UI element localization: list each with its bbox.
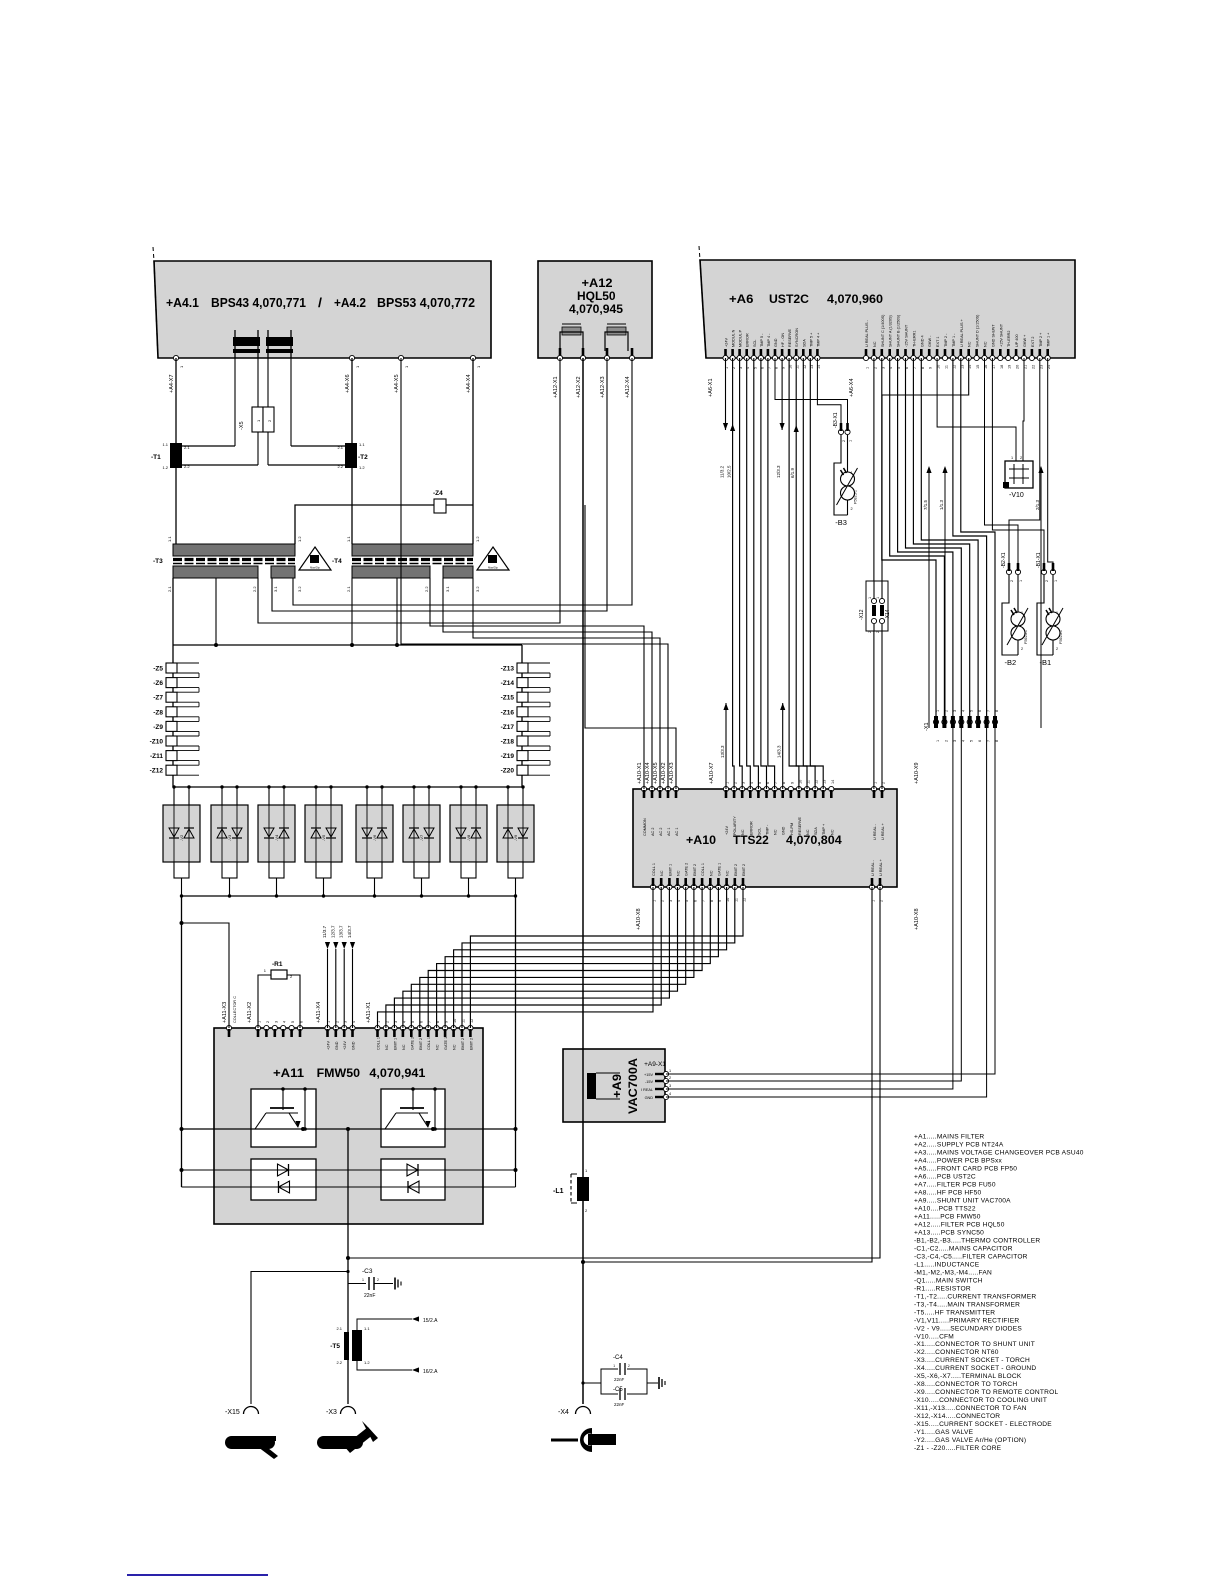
- svg-text:-V7: -V7: [419, 834, 424, 841]
- svg-text:-M1,-M2,-M3,-M4.....FAN: -M1,-M2,-M3,-M4.....FAN: [914, 1269, 992, 1276]
- wire left rail to FMW diode bus: [181, 896, 183, 1187]
- svg-text:2: 2: [377, 1278, 379, 1282]
- wire +A6-X1 pin 13 to TTS X7 pin 13: [810, 358, 823, 789]
- electrode holder icon: [225, 1436, 275, 1449]
- svg-text:F5925/1: F5925/1: [1059, 630, 1063, 644]
- svg-text:-T2: -T2: [358, 454, 368, 461]
- wire T3 tap 3.1 to HQL X3: [272, 358, 607, 611]
- wire +A6-X4 pin 21 to CFM V10 pin 2: [1023, 358, 1024, 461]
- ground after C3: [394, 1278, 396, 1290]
- svg-text:1: 1: [1056, 611, 1058, 615]
- svg-text:+24V: +24V: [725, 826, 729, 835]
- svg-text:+A6: +A6: [729, 292, 754, 306]
- signal arrow 7/1.5: [926, 466, 931, 473]
- svg-text:1: 1: [1019, 580, 1023, 582]
- svg-text:2: 2: [1056, 647, 1058, 651]
- svg-text:3: 3: [669, 1084, 671, 1088]
- svg-text:-R1: -R1: [272, 961, 283, 968]
- svg-text:NC: NC: [385, 1044, 389, 1050]
- svg-text:U REAL -: U REAL -: [871, 859, 875, 876]
- svg-text:1: 1: [851, 471, 853, 475]
- svg-text:11: 11: [945, 365, 949, 369]
- wire +A11-X4 pin 4 arrow: [352, 949, 354, 1028]
- svg-text:1: 1: [362, 1278, 364, 1282]
- svg-text:ERROR: ERROR: [749, 821, 753, 835]
- wire TTS X8R pin1 down to output rail: [583, 887, 872, 1262]
- svg-text:5: 5: [970, 740, 974, 742]
- svg-text:+15V: +15V: [644, 1073, 653, 1077]
- svg-text:-X12,-X14.....CONNECTOR: -X12,-X14.....CONNECTOR: [914, 1413, 1000, 1420]
- svg-text:2: 2: [628, 1364, 630, 1368]
- svg-text:GKW -: GKW -: [928, 335, 932, 347]
- svg-text:U REAL +: U REAL +: [879, 858, 883, 876]
- svg-text:GATE 2: GATE 2: [410, 1037, 414, 1050]
- svg-text:+A3.....MAINS VOLTAGE CHANGEOV: +A3.....MAINS VOLTAGE CHANGEOVER PCB ASU…: [914, 1149, 1084, 1156]
- mains capacitor C1: [234, 330, 236, 358]
- svg-text:NC: NC: [984, 341, 988, 347]
- svg-text:-Z9: -Z9: [153, 724, 163, 731]
- svg-text:GATE 1: GATE 1: [717, 863, 721, 876]
- svg-text:TMP 2 +: TMP 2 +: [1039, 332, 1043, 347]
- wire +A6-X4 pin 16 to B2 right: [985, 358, 1019, 568]
- svg-text:AC 1: AC 1: [675, 828, 679, 836]
- svg-text:COLL 1: COLL 1: [377, 1037, 381, 1050]
- svg-text:U REAL -: U REAL -: [873, 823, 877, 840]
- svg-text:2: 2: [1020, 456, 1022, 460]
- svg-text:SHUNT A (1/320S): SHUNT A (1/320S): [889, 314, 893, 347]
- pin +A10-X3: [673, 786, 678, 791]
- svg-text:-T5.....HF TRANSMITTER: -T5.....HF TRANSMITTER: [914, 1309, 995, 1316]
- wire +A6-X4 pin 6 to -X1 pin 4: [906, 358, 962, 718]
- svg-text:-Z16: -Z16: [501, 709, 515, 716]
- filter PCB block +A12 HQL50: [538, 261, 652, 358]
- wire +A4-X5 to TTS X2: [401, 358, 668, 789]
- freewheel diode box 2: [381, 1159, 445, 1200]
- svg-text:EMIT 2: EMIT 2: [469, 1038, 473, 1050]
- wire T4 tap 3.1 to TTS X4: [443, 578, 652, 789]
- filter core -Z7: [166, 692, 177, 702]
- svg-text:7/1.5: 7/1.5: [923, 499, 928, 510]
- svg-text:3.2: 3.2: [475, 586, 480, 592]
- svg-text:-T1: -T1: [151, 454, 161, 461]
- svg-text:-Z12: -Z12: [150, 768, 164, 775]
- wire HQL X2 rail to current socket X4: [582, 358, 584, 1404]
- wire +A11-X4 pin 2 arrow: [335, 949, 337, 1028]
- wire +A6-X1 pin 5 to TTS X7 pin 5: [754, 358, 759, 789]
- svg-text:16/2.A: 16/2.A: [423, 1369, 438, 1375]
- svg-text:4: 4: [961, 710, 965, 712]
- svg-text:SCL: SCL: [757, 828, 761, 835]
- svg-text:11/3.7: 11/3.7: [322, 925, 327, 938]
- wire +A11-X4 pin 1 arrow: [327, 949, 329, 1028]
- svg-text:I REAL: I REAL: [641, 1088, 653, 1092]
- svg-text:+A10-X1: +A10-X1: [637, 762, 643, 784]
- svg-text:TMP -: TMP -: [766, 824, 770, 835]
- svg-text:11/3.2: 11/3.2: [720, 465, 725, 478]
- svg-text:1: 1: [613, 1364, 615, 1368]
- svg-text:4: 4: [961, 740, 965, 742]
- svg-text:-X3: -X3: [326, 1409, 337, 1416]
- svg-text:4,070,941: 4,070,941: [369, 1066, 425, 1080]
- filter core -Z11: [166, 751, 177, 761]
- wire TTS X8 pin 3 to FMW X1 pin 3: [394, 887, 669, 1028]
- svg-text:SDA: SDA: [802, 339, 806, 347]
- svg-text:EMIT 1: EMIT 1: [393, 1038, 397, 1050]
- svg-text:-Z14: -Z14: [501, 680, 515, 687]
- svg-text:2: 2: [851, 507, 853, 511]
- svg-text:4: 4: [283, 1021, 287, 1023]
- filter core -Z10: [166, 736, 177, 746]
- svg-text:GND 4: GND 4: [920, 335, 924, 347]
- PCB block +A11 FMW50: [214, 1028, 483, 1224]
- svg-text:HS-PM: HS-PM: [790, 823, 794, 835]
- svg-text:-Z17: -Z17: [501, 724, 515, 731]
- svg-text:-L1: -L1: [553, 1188, 564, 1195]
- svg-text:+A8.....HF PCB HF50: +A8.....HF PCB HF50: [914, 1189, 982, 1196]
- wire T5 secondary to arrow 16/2.A: [357, 1360, 412, 1370]
- svg-text:3.1: 3.1: [445, 586, 450, 592]
- wire +A6-X1 pin 10 to TTS X7 pin 10: [789, 358, 799, 789]
- svg-text:-T3: -T3: [153, 558, 163, 565]
- filter core -Z15: [517, 692, 528, 702]
- filter core -Z9: [166, 721, 177, 731]
- connector -X14: [879, 598, 884, 603]
- svg-text:VAC700A: VAC700A: [628, 1058, 640, 1114]
- svg-text:SHUNT B (1/250S): SHUNT B (1/250S): [897, 314, 901, 347]
- svg-text:2.2: 2.2: [336, 1360, 342, 1365]
- svg-text:20: 20: [1016, 365, 1020, 369]
- svg-text:EMIT 2: EMIT 2: [742, 864, 746, 876]
- IGBT transistor V1 symbol: [282, 1089, 284, 1110]
- resistor R1: [258, 975, 271, 1028]
- control PCB block +A6 UST2C: [700, 260, 1075, 358]
- svg-text:-Y1.....GAS VALVE: -Y1.....GAS VALVE: [914, 1429, 974, 1436]
- wire +A4-X6 down to T4: [351, 358, 353, 443]
- svg-text:NC: NC: [968, 341, 972, 347]
- wire TTS X8 pin 4 to FMW X1 pin 4: [403, 887, 678, 1028]
- svg-text:-V2 - V9.....SECUNDARY DIODES: -V2 - V9.....SECUNDARY DIODES: [914, 1325, 1022, 1332]
- wire TTS X8 pin 11 to FMW X1 pin 11: [462, 887, 735, 1028]
- svg-text:2.1: 2.1: [167, 586, 172, 592]
- svg-text:8: 8: [995, 710, 999, 712]
- filter core -Z18: [517, 736, 528, 746]
- svg-text:4: 4: [669, 1092, 671, 1096]
- svg-text:COLL 1: COLL 1: [427, 1037, 431, 1050]
- shunt unit block +A9 VAC700A: [563, 1049, 665, 1122]
- ground clamp icon: [551, 1439, 578, 1442]
- wire TTS X8 pin 2 to FMW X1 pin 2: [386, 887, 661, 1028]
- svg-text:2.2: 2.2: [424, 586, 429, 592]
- svg-text:2: 2: [868, 631, 872, 633]
- svg-text:3.2: 3.2: [297, 586, 302, 592]
- svg-text:+A13.....PCB SYNC50: +A13.....PCB SYNC50: [914, 1229, 984, 1236]
- filter capacitor C3: [348, 1283, 366, 1285]
- svg-text:2: 2: [876, 631, 880, 633]
- wire +A6-X4 pin 3 to -X1 pin 1: [882, 358, 936, 718]
- svg-text:1.1: 1.1: [167, 536, 172, 542]
- svg-text:EXT 2: EXT 2: [1031, 337, 1035, 347]
- svg-text:NC: NC: [774, 829, 778, 835]
- svg-text:14/3.7: 14/3.7: [347, 925, 352, 938]
- PCB block +A10 TTS22: [633, 789, 897, 887]
- svg-text:-Z8: -Z8: [153, 709, 163, 716]
- pin +A10-X4: [649, 786, 654, 791]
- wire T4 mid tap: [396, 578, 398, 645]
- svg-text:2: 2: [1021, 647, 1023, 651]
- main transformer T3: [173, 544, 295, 556]
- svg-text:-Z20: -Z20: [501, 768, 515, 775]
- svg-text:1.2: 1.2: [359, 465, 365, 470]
- svg-text:+A4.2: +A4.2: [334, 295, 366, 310]
- svg-text:+A10-X8: +A10-X8: [636, 908, 642, 930]
- svg-text:NC: NC: [741, 829, 745, 835]
- svg-text:1.1: 1.1: [162, 442, 168, 447]
- svg-text:-X11,-X13.....CONNECTOR TO FAN: -X11,-X13.....CONNECTOR TO FAN: [914, 1405, 1027, 1412]
- wire +A6-X4 pin 4 to -X1 pin 2: [890, 358, 945, 718]
- svg-text:9: 9: [790, 782, 794, 784]
- svg-text:F5925/1: F5925/1: [1024, 630, 1028, 644]
- svg-text:GND: GND: [645, 1096, 654, 1100]
- svg-text:-V10: -V10: [1009, 492, 1024, 499]
- svg-text:RESERVE: RESERVE: [798, 816, 802, 835]
- current transformer T2: [345, 443, 357, 468]
- svg-text:+24V: +24V: [725, 338, 729, 347]
- wire -X1 pin8 to A9 +15V: [666, 728, 995, 1074]
- wire TTS X8 pin 1 to FMW X1 pin 1: [378, 887, 654, 1028]
- svg-text:22: 22: [1031, 365, 1035, 369]
- secondary rectifier frame: [172, 578, 174, 787]
- svg-text:-X2.....CONNECTOR NT60: -X2.....CONNECTOR NT60: [914, 1349, 999, 1356]
- svg-text:3.1: 3.1: [273, 586, 278, 592]
- svg-text:UST2C: UST2C: [769, 292, 809, 306]
- wire TTS X8 pin 9 to FMW X1 pin 9: [445, 887, 718, 1028]
- svg-text:EMIT 2: EMIT 2: [693, 864, 697, 876]
- svg-text:GKW +: GKW +: [1023, 334, 1027, 347]
- svg-text:-C4: -C4: [613, 1355, 623, 1361]
- svg-text:NC: NC: [873, 341, 877, 347]
- svg-text:-X1: -X1: [924, 722, 930, 731]
- wire Z4 link T3 to T4: [295, 505, 473, 544]
- svg-text:2: 2: [842, 440, 846, 442]
- svg-text:+A7.....FILTER PCB FU50: +A7.....FILTER PCB FU50: [914, 1181, 996, 1188]
- svg-text:1.1: 1.1: [346, 536, 351, 542]
- svg-text:+A6-X4: +A6-X4: [849, 379, 855, 398]
- svg-text:2: 2: [266, 1021, 270, 1023]
- svg-text:1.1: 1.1: [359, 442, 365, 447]
- filter core in HQL50 (right): [607, 323, 626, 325]
- svg-text:+A10-X3: +A10-X3: [669, 762, 675, 784]
- svg-text:19: 19: [1008, 365, 1012, 369]
- filter core -Z19: [517, 751, 528, 761]
- svg-text:+A12-X4: +A12-X4: [625, 376, 631, 398]
- secondary diode module V5: [305, 805, 342, 862]
- wire +A6-X4 pin 10 to CFM V10 pin 1: [937, 358, 1016, 461]
- svg-text:-V3: -V3: [227, 834, 232, 841]
- svg-text:GND SHUNT: GND SHUNT: [991, 324, 995, 347]
- svg-text:NC: NC: [402, 1044, 406, 1050]
- svg-text:HQL50: HQL50: [577, 291, 616, 303]
- svg-text:RESERVE: RESERVE: [788, 328, 792, 347]
- main transformer T4: [352, 544, 473, 556]
- svg-text:NC: NC: [806, 829, 810, 835]
- svg-text:1: 1: [1021, 611, 1023, 615]
- wire +A6-X1 pin 1 arrow 11/3.2: [725, 358, 727, 430]
- filter core -Z5: [166, 663, 177, 673]
- pin +A12-X1: [559, 348, 562, 357]
- filter core -Z4: [434, 499, 446, 513]
- filter core -Z20: [517, 765, 528, 775]
- svg-text:+A5.....FRONT CARD PCB FP50: +A5.....FRONT CARD PCB FP50: [914, 1165, 1017, 1172]
- svg-text:+A11-X3: +A11-X3: [222, 1002, 228, 1023]
- svg-text:-Y2.....GAS VALVE Ar/He (OPTIO: -Y2.....GAS VALVE Ar/He (OPTION): [914, 1437, 1026, 1444]
- wire +A6-X4 pin 14 to TTS X9 pin2: [882, 358, 969, 789]
- pin +A11-X3 COLLECTOR: [226, 1025, 231, 1030]
- current socket -X4 ground: [576, 1407, 591, 1415]
- svg-text:1: 1: [849, 440, 853, 442]
- svg-text:TMP 5 -: TMP 5 -: [760, 333, 764, 347]
- svg-text:13/3.3: 13/3.3: [720, 745, 725, 758]
- svg-text:1: 1: [1011, 456, 1013, 460]
- svg-text:NC: NC: [453, 1044, 457, 1050]
- svg-text:FMW50: FMW50: [317, 1066, 361, 1080]
- svg-text:+A11-X1: +A11-X1: [366, 1002, 372, 1023]
- secondary diode module V8: [450, 805, 487, 862]
- pin +A4-X4: [470, 355, 475, 360]
- svg-text:-X4: -X4: [558, 1409, 569, 1416]
- filter core -Z16: [517, 707, 528, 717]
- svg-text:NC: NC: [660, 870, 664, 876]
- connector -B3-X1: [838, 429, 843, 434]
- svg-text:8: 8: [995, 740, 999, 742]
- svg-text:SDA: SDA: [814, 827, 818, 835]
- svg-text:-X9.....CONNECTOR TO REMOTE CO: -X9.....CONNECTOR TO REMOTE CONTROL: [914, 1389, 1058, 1396]
- svg-text:GND: GND: [352, 1041, 356, 1050]
- wire +A6-X4 pin 5 to -X1 pin 3: [898, 358, 953, 718]
- svg-text:-B1: -B1: [1040, 658, 1052, 667]
- wire +A6-X1 pin 14 to B3: [817, 358, 841, 428]
- current socket -X3 torch: [341, 1407, 356, 1415]
- svg-text:/: /: [318, 295, 322, 310]
- svg-text:5: 5: [291, 1021, 295, 1023]
- svg-text:-V1,V11.....PRIMARY RECTIFIER: -V1,V11.....PRIMARY RECTIFIER: [914, 1317, 1019, 1324]
- svg-text:U REAL PLUS -: U REAL PLUS -: [865, 319, 869, 347]
- wire through X12: [873, 581, 875, 599]
- svg-text:TMP 5 +: TMP 5 +: [809, 332, 813, 347]
- wire to ground right of C5: [647, 1382, 658, 1384]
- pin +A10-X2: [665, 786, 670, 791]
- wire TTS X8 pin 10 to FMW X1 pin 10: [454, 887, 727, 1028]
- filter core -Z8: [166, 707, 177, 717]
- svg-text:+A4.....POWER PCB BPSxx: +A4.....POWER PCB BPSxx: [914, 1157, 1003, 1164]
- svg-text:-L1.....INDUCTANCE: -L1.....INDUCTANCE: [914, 1261, 980, 1268]
- svg-text:-X15.....CURRENT SOCKET - ELEC: -X15.....CURRENT SOCKET - ELECTRODE: [914, 1421, 1052, 1428]
- svg-text:+A11-X4: +A11-X4: [316, 1002, 322, 1023]
- pin +A4-X6: [349, 355, 354, 360]
- svg-text:-X14: -X14: [885, 609, 891, 620]
- wire +A6-X4 pin 7 to -X1 pin 5: [913, 358, 969, 718]
- diode pair 1: [251, 1169, 316, 1171]
- filter capacitor C5: [601, 1383, 618, 1394]
- svg-text:+A9.....SHUNT UNIT VAC700A: +A9.....SHUNT UNIT VAC700A: [914, 1197, 1011, 1204]
- wire -X1 pin3 to A9 I REAL: [666, 728, 953, 1089]
- svg-text:Max/Gip: Max/Gip: [310, 566, 320, 570]
- svg-text:2: 2: [669, 1076, 671, 1080]
- svg-text:7: 7: [987, 710, 991, 712]
- wire collector branch to +A11-X3: [182, 923, 230, 1028]
- svg-text:EMIT 1: EMIT 1: [668, 864, 672, 876]
- svg-text:18: 18: [1000, 365, 1004, 369]
- svg-text:2: 2: [1010, 580, 1014, 582]
- svg-text:EMIT 2: EMIT 2: [419, 1038, 423, 1050]
- svg-text:F5925/1: F5925/1: [854, 490, 858, 504]
- svg-text:-X1.....CONNECTOR TO SHUNT UNI: -X1.....CONNECTOR TO SHUNT UNIT: [914, 1341, 1035, 1348]
- svg-text:9: 9: [929, 367, 933, 369]
- warning triangle near T4: [477, 547, 509, 570]
- pin +A4-X7: [173, 355, 178, 360]
- svg-text:U REAL +: U REAL +: [881, 822, 885, 840]
- svg-text:SHUNT C (1/400S): SHUNT C (1/400S): [881, 314, 885, 347]
- svg-text:GATE 1: GATE 1: [444, 1037, 448, 1050]
- wire TTS X8 pin 6 to FMW X1 pin 6: [420, 887, 694, 1028]
- wire TTS X8 pin 12 to FMW X1 pin 12: [470, 887, 743, 1028]
- svg-text:+24V: +24V: [327, 1041, 331, 1050]
- wire TTS X3 to transformer mid rail: [585, 505, 676, 789]
- svg-text:1.2: 1.2: [475, 536, 480, 542]
- svg-text:MODUL N: MODUL N: [732, 329, 736, 347]
- svg-text:+A10-X7: +A10-X7: [709, 762, 715, 784]
- svg-text:-V5: -V5: [321, 834, 326, 841]
- wire +A4-X7 down left rail: [175, 358, 177, 443]
- collector bus: [182, 1128, 516, 1130]
- wire +A6-X4 pin 23 to B2: [1009, 358, 1040, 568]
- connector -B1-X1: [1041, 569, 1046, 574]
- warning triangle near T3: [299, 547, 331, 570]
- current socket -X15 electrode: [244, 1407, 259, 1415]
- svg-text:ERROR: ERROR: [746, 333, 750, 347]
- pin +A12-X2: [582, 348, 585, 357]
- pin +A4-X5: [398, 355, 403, 360]
- upper diode bus: [182, 1169, 516, 1171]
- wire TTS X7 pin 1 arrow 13/3.3: [725, 703, 727, 789]
- svg-text:1/1.3: 1/1.3: [939, 499, 944, 510]
- svg-text:-15V: -15V: [645, 1080, 653, 1084]
- svg-text:2.2: 2.2: [252, 586, 257, 592]
- svg-text:+A12.....FILTER PCB HQL50: +A12.....FILTER PCB HQL50: [914, 1221, 1005, 1228]
- svg-text:6/1.9: 6/1.9: [790, 467, 795, 478]
- svg-text:-C5: -C5: [613, 1387, 623, 1393]
- secondary diode module V9: [497, 805, 534, 862]
- svg-text:10/2.5: 10/2.5: [727, 465, 732, 478]
- wire +A6-X4 pin 2 to TTS X9 pin1: [873, 358, 875, 789]
- secondary diode module V7: [403, 805, 440, 862]
- svg-text:14: 14: [831, 780, 835, 784]
- svg-text:TMP 4 -: TMP 4 -: [767, 333, 771, 347]
- svg-text:13/3.7: 13/3.7: [339, 925, 344, 938]
- wire +A6-X1 pin 4 to TTS X7 pin 4: [747, 358, 751, 789]
- svg-text:2: 2: [944, 710, 948, 712]
- wire +A11-X4 pin 3 arrow: [343, 949, 345, 1028]
- svg-text:-B2: -B2: [1005, 658, 1017, 667]
- svg-text:TMP 2 -: TMP 2 -: [944, 333, 948, 347]
- svg-text:-V10.....CFM: -V10.....CFM: [914, 1333, 954, 1340]
- svg-text:TMP +: TMP +: [822, 823, 826, 835]
- CFM module -V10: [1005, 461, 1033, 488]
- svg-text:+24V: +24V: [343, 1041, 347, 1050]
- svg-text:+A4-X7: +A4-X7: [169, 375, 175, 394]
- wire right rail to FMW: [515, 896, 517, 1170]
- wire -X1 pin4 to A9 -15V: [666, 728, 961, 1081]
- svg-text:SHUNT D (1/150S): SHUNT D (1/150S): [976, 314, 980, 347]
